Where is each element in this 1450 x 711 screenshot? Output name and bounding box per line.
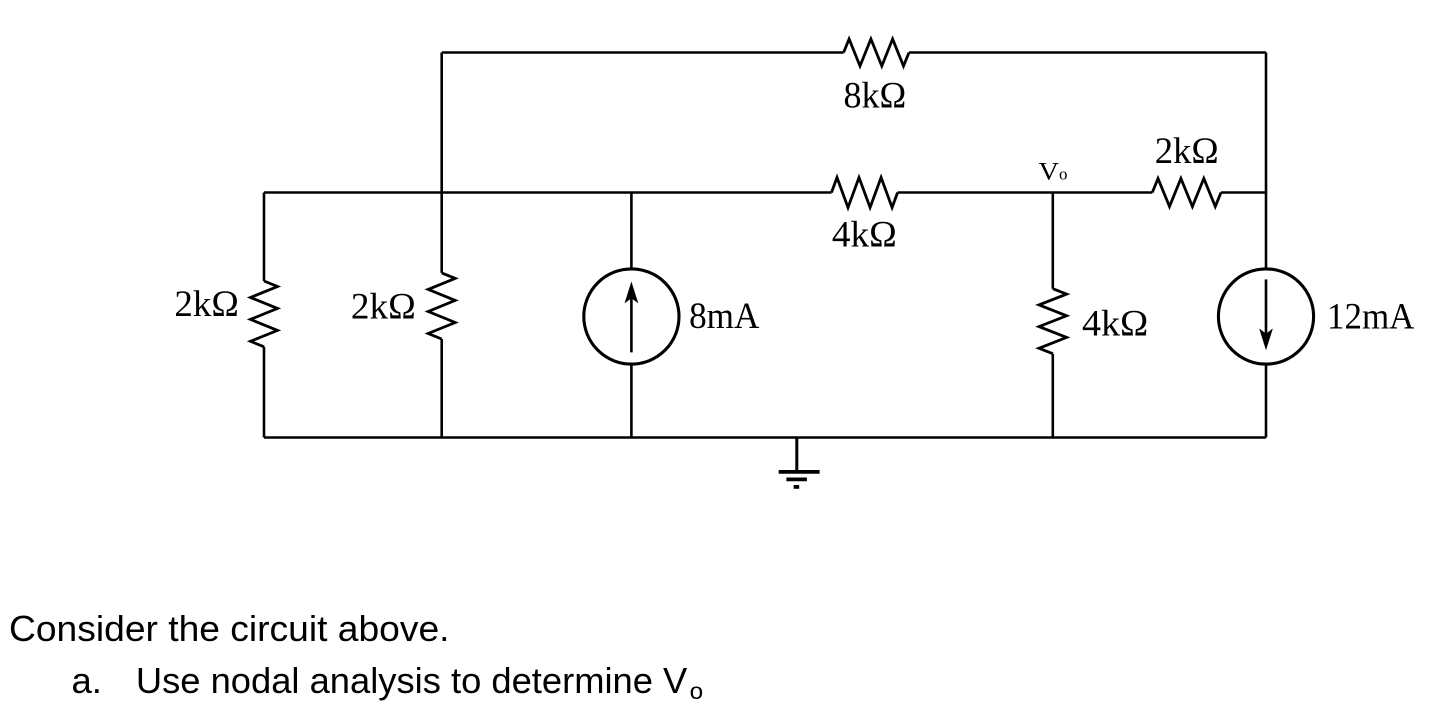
wire: Vo branch top segment [1052,193,1055,289]
ground bar 2 [786,477,807,481]
wire: 8mA branch bottom segment [630,364,633,437]
ground bar 1 [779,470,820,474]
wire: top horizontal left segment [442,51,844,54]
wire: left vertical bottom segment [263,347,266,438]
wire: Vo branch bottom segment [1052,354,1055,438]
svg-text:a.: a. [72,660,102,701]
wire: right vertical top segment [1265,53,1268,269]
svg-text:8mA: 8mA [689,296,760,337]
svg-text:2kΩ: 2kΩ [351,287,416,328]
resistor R5 2kOhm (second vertical) [428,273,455,339]
wire: second vertical top segment [440,53,443,273]
svg-text:V: V [1039,159,1060,186]
svg-text:4kΩ: 4kΩ [832,214,897,255]
resistor R4 2kOhm (left vertical) [251,281,278,347]
svg-text:o: o [690,678,704,704]
current source I2 12mA circle [1218,269,1313,364]
wire: top horizontal right segment [909,51,1266,54]
resistor R2 4kOhm (middle horizontal) [832,178,898,208]
svg-text:2kΩ: 2kΩ [1155,131,1219,172]
resistor R3 2kOhm (top right horizontal) [1152,179,1221,207]
svg-text:8kΩ: 8kΩ [844,75,907,116]
wire: second vertical bottom segment [440,339,443,438]
current source I1 arrow (up) [630,295,633,352]
current source I2 arrow (down) [1265,279,1268,337]
svg-text:2kΩ: 2kΩ [174,284,239,325]
current source I1 8mA circle [584,269,679,364]
ground bar 3 [794,485,800,489]
svg-text:4kΩ: 4kΩ [1082,303,1148,344]
wire: middle horizontal right segment [1221,191,1266,194]
resistor R6 4kOhm (right vertical) [1039,289,1067,354]
svg-text:12mA: 12mA [1327,296,1415,337]
svg-text:Consider the circuit above.: Consider the circuit above. [9,608,450,649]
wire: right vertical bottom segment [1265,364,1268,437]
resistor R1 8kOhm (top) [844,39,909,66]
wire: middle horizontal centre segment [898,191,1153,194]
wire: middle horizontal left segment [264,191,832,194]
wire: 8mA branch top segment [630,193,633,269]
ground stem [795,438,798,472]
wire: bottom horizontal [264,436,1266,439]
svg-text:o: o [1059,165,1068,184]
svg-text:Use nodal analysis to determin: Use nodal analysis to determine V [136,660,688,701]
wire: left vertical top segment [263,193,266,282]
